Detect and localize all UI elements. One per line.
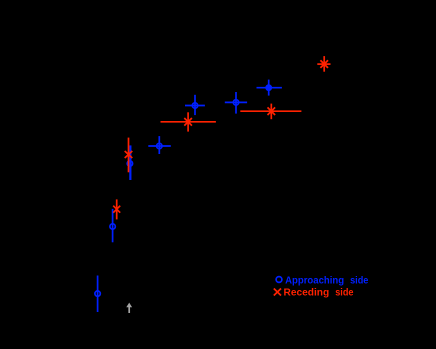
blue data point P7 horizontal error bar bbox=[257, 87, 282, 89]
blue data point P3 error bar bbox=[129, 145, 131, 180]
blue data point P5 circle bbox=[192, 103, 197, 108]
svg-text:Approaching: Approaching bbox=[285, 274, 344, 286]
red data point R2 error bar bbox=[128, 138, 130, 173]
red data point R5 horizontal error bar bbox=[317, 63, 330, 65]
blue data point P4 circle bbox=[157, 143, 162, 148]
blue data point P7 filled circle bbox=[266, 85, 272, 91]
blue data point P2 error bar bbox=[112, 209, 114, 242]
blue data point P1 error bar bbox=[97, 276, 99, 313]
svg-text:Receding: Receding bbox=[284, 286, 330, 298]
red data point R1 X marker bbox=[113, 206, 120, 213]
blue data point P6 horizontal error bar bbox=[225, 101, 247, 103]
blue data point P6 vertical error bar bbox=[235, 92, 237, 114]
red data point R4 horizontal error bar bbox=[240, 110, 301, 112]
legend approaching-side circle marker bbox=[276, 277, 282, 283]
blue data point P4 horizontal error bar bbox=[148, 145, 171, 147]
red data point R3 X marker bbox=[184, 118, 192, 126]
svg-text:side: side bbox=[350, 274, 368, 286]
blue data point P6 circle bbox=[233, 100, 238, 105]
svg-text:side: side bbox=[335, 286, 353, 298]
red data point R4 X marker bbox=[268, 107, 276, 115]
legend receding-side X marker bbox=[274, 289, 281, 296]
red data point R5 vertical error bar bbox=[323, 56, 325, 72]
red data point R5 center dot bbox=[322, 62, 326, 66]
gray upper-limit arrow bbox=[126, 303, 132, 313]
red data point R2 X marker bbox=[125, 151, 133, 158]
blue data point P5 horizontal error bar bbox=[185, 105, 205, 107]
blue data point P2 circle bbox=[110, 224, 115, 229]
red data point R3 vertical error bar bbox=[187, 112, 189, 131]
red data point R5 X marker bbox=[320, 60, 328, 68]
red data point R4 vertical error bar bbox=[270, 104, 272, 120]
red data point R1 error bar bbox=[116, 199, 118, 219]
blue data point P5 vertical error bar bbox=[194, 95, 196, 115]
blue data point P4 vertical error bar bbox=[158, 136, 160, 154]
red data point R3 horizontal error bar bbox=[161, 121, 216, 123]
blue data point P3 circle bbox=[127, 161, 132, 166]
blue data point P7 vertical error bar bbox=[268, 80, 270, 96]
blue data point P1 circle bbox=[95, 291, 100, 296]
